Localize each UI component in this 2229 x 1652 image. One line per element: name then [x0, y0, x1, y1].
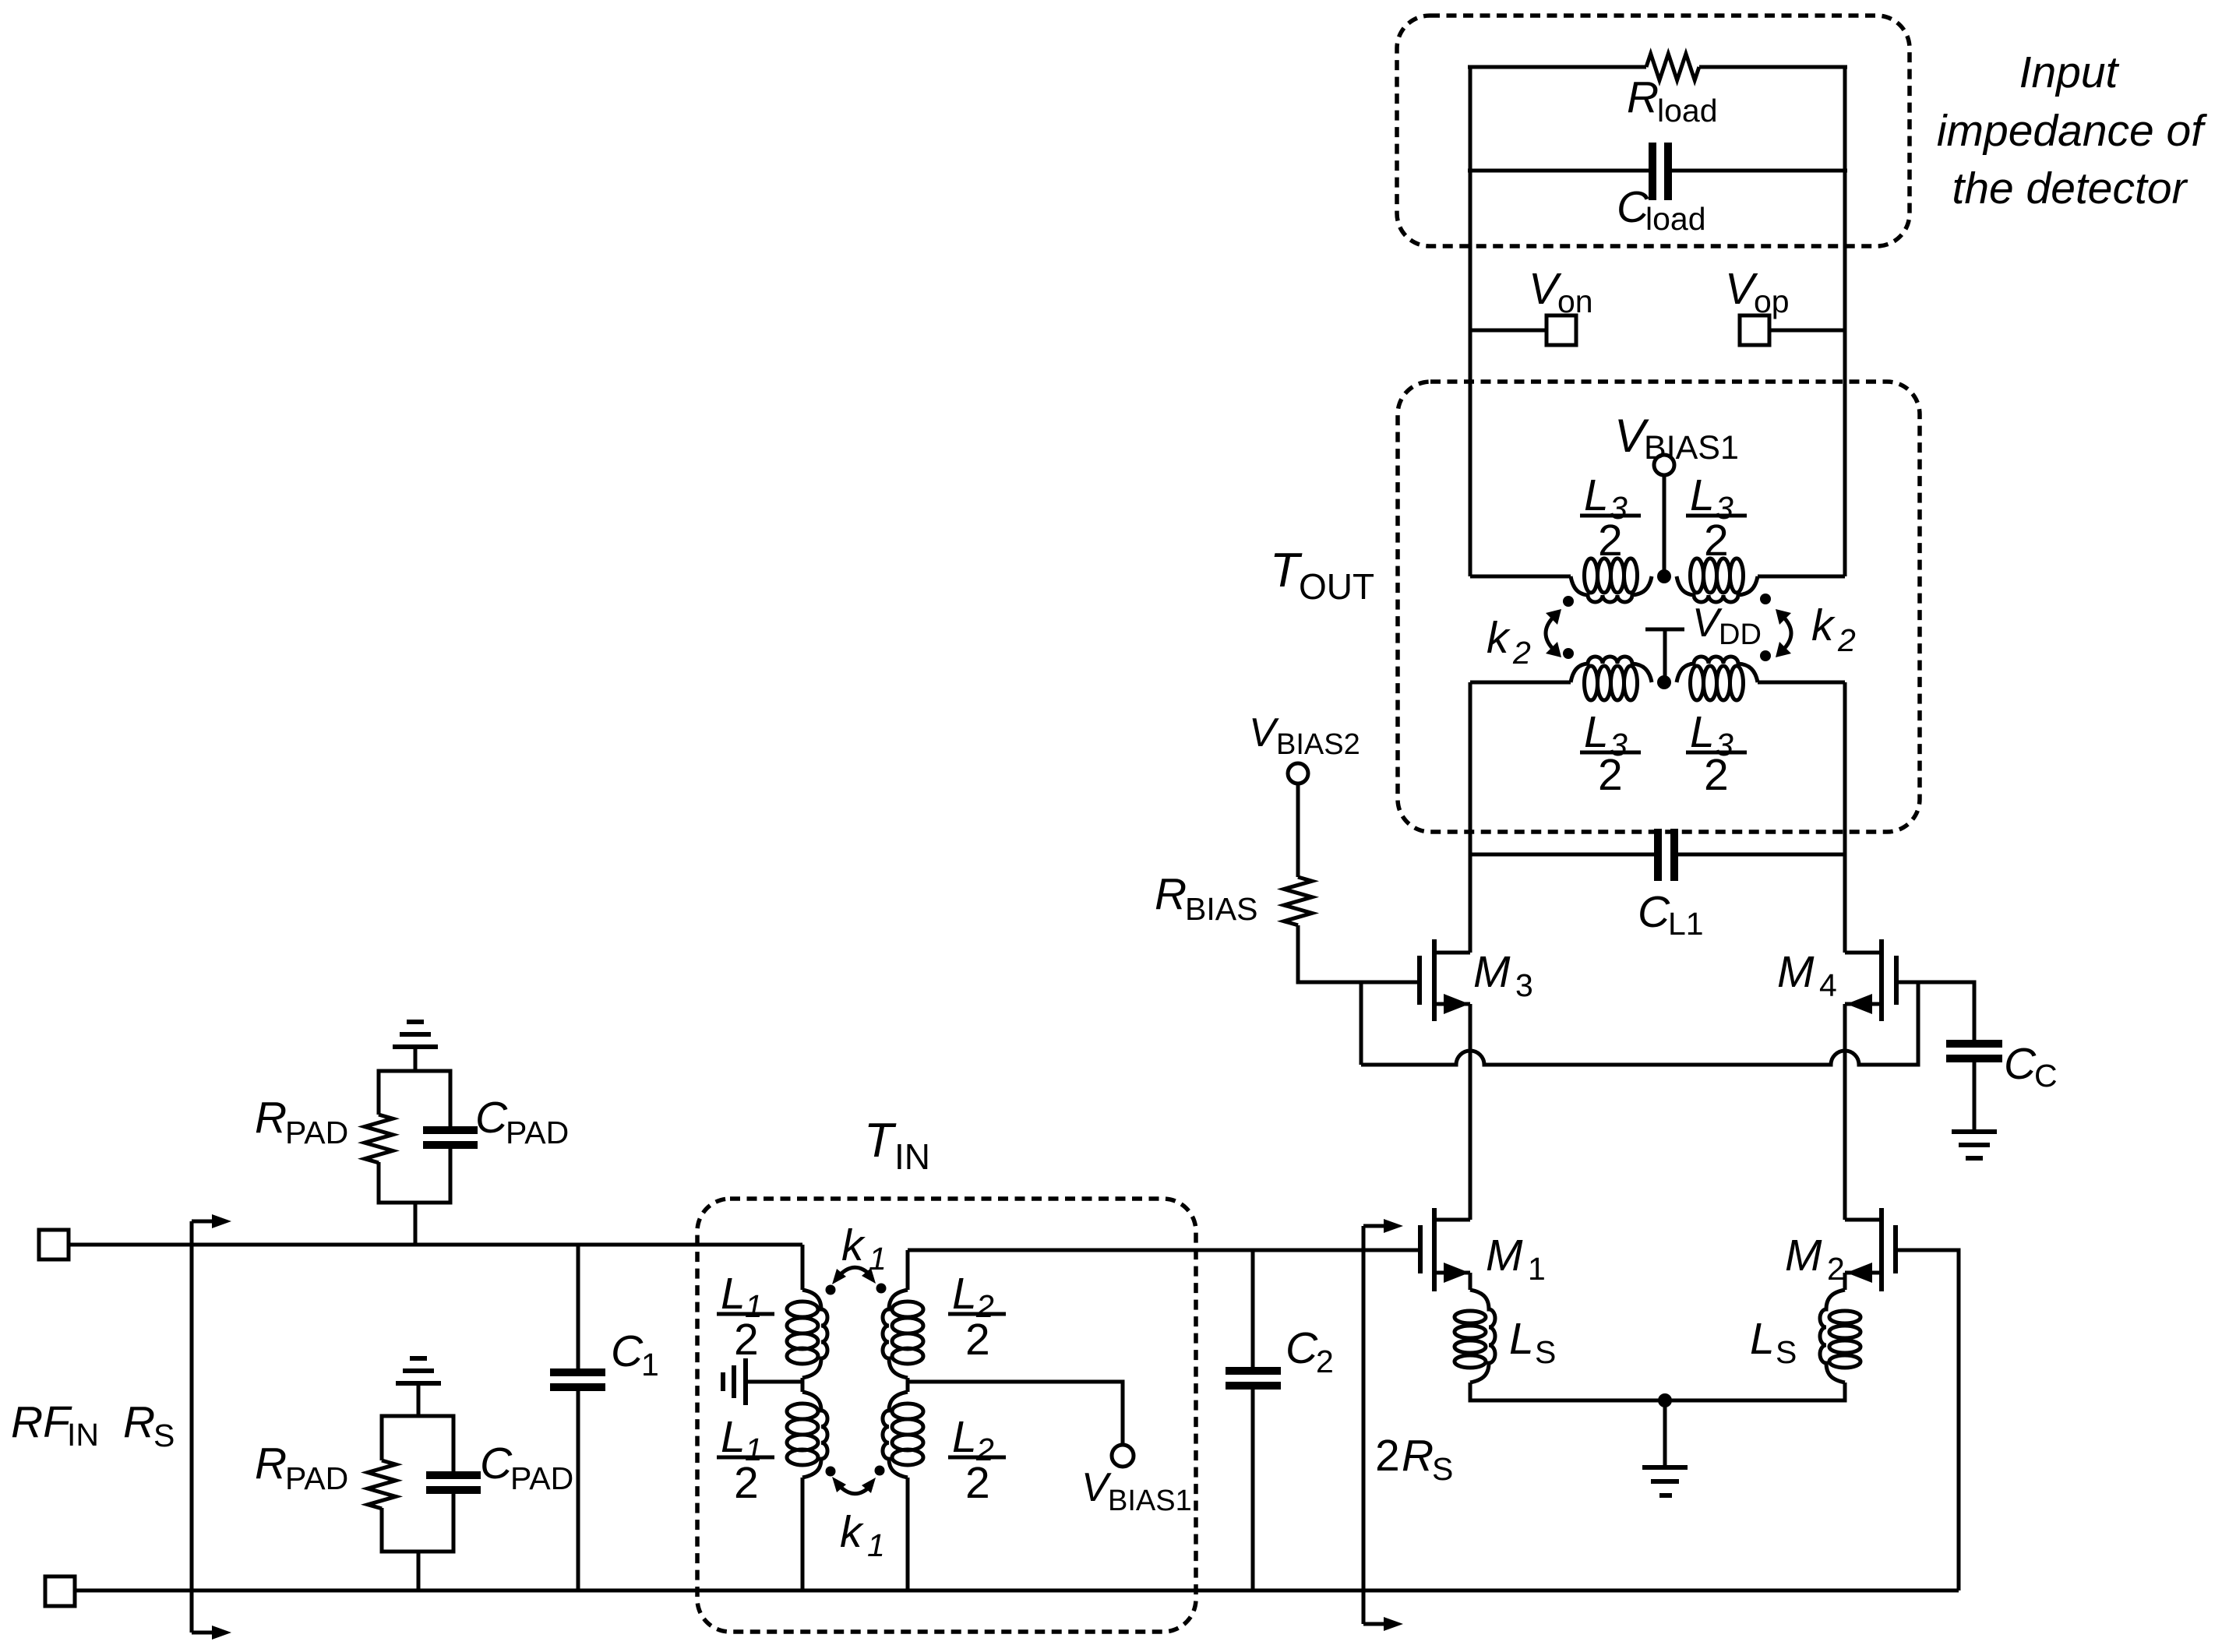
label k2 right	[1811, 601, 1856, 658]
wire: T_OUT primary right lead	[1758, 681, 1845, 685]
label L2/2 lower fraction	[948, 1412, 1006, 1508]
phase dot bottom-right	[1760, 650, 1771, 661]
svg-text:C: C	[2004, 1039, 2037, 1089]
svg-text:2: 2	[1375, 1431, 1400, 1481]
label V_BIAS2	[1249, 710, 1360, 761]
wire: M4 source rail down to M2 drain	[1843, 1004, 1847, 1220]
wire: primary bottom vertical	[801, 1478, 805, 1590]
label M3	[1473, 947, 1533, 1003]
transistor M3	[1420, 939, 1470, 1021]
wire: secondary bottom vertical	[906, 1478, 910, 1590]
svg-text:S: S	[1535, 1334, 1556, 1370]
capacitor C_C	[1946, 1044, 2002, 1058]
phase dot T_IN bottom-right	[875, 1466, 885, 1476]
inductor L3/2 secondary right coil	[1677, 558, 1758, 602]
label M4	[1777, 947, 1837, 1003]
wire: M4 gate lead to C_C	[1896, 982, 1974, 1041]
transformer T_IN dashed box	[697, 1199, 1196, 1632]
phase dot T_IN bottom-left	[826, 1467, 836, 1477]
k2 coupling arrow left	[1546, 609, 1561, 657]
svg-text:DD: DD	[1719, 618, 1762, 651]
svg-text:2: 2	[965, 1315, 990, 1365]
svg-text:2: 2	[1704, 516, 1729, 565]
pad RF_IN bottom	[45, 1576, 75, 1606]
svg-text:T: T	[864, 1114, 897, 1168]
svg-text:k: k	[1811, 601, 1836, 650]
wire: C_L1 wire left	[1470, 853, 1654, 857]
wire: cross-couple line with hops	[1361, 982, 1918, 1065]
svg-text:4: 4	[1819, 967, 1837, 1003]
svg-text:load: load	[1657, 93, 1718, 129]
wire: upper combo to top wire	[414, 1203, 418, 1245]
resistor R_BIAS	[1284, 877, 1312, 925]
svg-text:the detector: the detector	[1952, 164, 2188, 213]
svg-text:IN: IN	[894, 1136, 930, 1177]
label k1 top	[841, 1221, 887, 1277]
svg-text:L: L	[1750, 1314, 1775, 1364]
wire: input top wire	[69, 1243, 802, 1247]
label V_on	[1529, 264, 1593, 319]
svg-text:2: 2	[965, 1458, 990, 1508]
wire: cross-couple left vertical	[1360, 982, 1363, 1065]
svg-text:PAD: PAD	[285, 1460, 348, 1496]
label C2	[1286, 1323, 1334, 1379]
capacitor C2	[1226, 1250, 1281, 1590]
label C_C	[2004, 1039, 2058, 1094]
inductor L_S right	[1820, 1290, 1860, 1383]
svg-text:L: L	[1584, 470, 1609, 520]
inductor L3/2 primary left coil	[1571, 657, 1652, 700]
label V_BIAS1 (T_IN)	[1081, 1465, 1192, 1517]
svg-text:L: L	[952, 1412, 977, 1462]
inductor L2/2 upper coil	[883, 1290, 923, 1378]
label C1	[611, 1326, 659, 1383]
power V_DD symbol	[1645, 629, 1684, 682]
phase dot top-left	[1563, 596, 1574, 607]
svg-text:load: load	[1645, 201, 1706, 237]
svg-text:C: C	[1638, 887, 1670, 937]
svg-text:BIAS1: BIAS1	[1108, 1485, 1192, 1517]
ground (L1 center tap, sideways)	[723, 1358, 746, 1405]
wire: secondary top vertical	[906, 1250, 910, 1290]
svg-text:M: M	[1486, 1231, 1523, 1280]
phase dot T_IN top-left	[826, 1285, 836, 1295]
wire: L_S right to common node	[1665, 1383, 1845, 1400]
wire: bottom wire	[75, 1589, 1959, 1593]
svg-text:S: S	[1432, 1451, 1453, 1487]
wire: C_load wire right	[1672, 169, 1847, 173]
wire: V_BIAS2 to R_BIAS	[1296, 784, 1300, 877]
ground (C_C)	[1952, 1132, 1997, 1158]
svg-text:S: S	[153, 1418, 175, 1453]
label V_BIAS1 (top)	[1614, 410, 1739, 467]
svg-text:k: k	[1487, 613, 1511, 663]
label V_DD	[1692, 601, 1762, 651]
k1 coupling arrow top	[832, 1267, 876, 1284]
label RF_IN	[11, 1397, 99, 1453]
pad V_on	[1547, 315, 1576, 345]
ground (lower pad, inverted)	[396, 1358, 441, 1383]
svg-text:C: C	[1286, 1323, 1318, 1373]
svg-text:2: 2	[1598, 516, 1623, 565]
svg-text:S: S	[1776, 1334, 1797, 1370]
label C_load	[1617, 182, 1706, 237]
svg-text:PAD: PAD	[285, 1115, 348, 1150]
svg-text:L: L	[1509, 1314, 1534, 1364]
svg-text:OUT: OUT	[1299, 566, 1374, 607]
inductor L1/2 upper coil	[787, 1290, 827, 1378]
R_PAD C_PAD lower parallel combo	[368, 1416, 481, 1552]
svg-text:1: 1	[1528, 1251, 1546, 1287]
svg-text:PAD: PAD	[506, 1115, 569, 1150]
svg-text:L: L	[721, 1412, 746, 1462]
label k2 left	[1487, 613, 1531, 671]
label C_PAD upper	[475, 1093, 569, 1150]
svg-text:V: V	[1249, 710, 1279, 756]
wire: right rail T_OUT to M4 drain	[1843, 682, 1847, 953]
svg-text:T: T	[1270, 544, 1303, 597]
label C_PAD lower	[480, 1439, 573, 1496]
wire: M2 source to L_S	[1843, 1273, 1847, 1290]
svg-text:1: 1	[867, 1527, 885, 1563]
svg-text:C: C	[2034, 1058, 2058, 1094]
terminal V_BIAS1 (T_IN)	[1112, 1445, 1134, 1467]
wire: primary top vertical	[801, 1245, 805, 1290]
label R_load	[1627, 72, 1718, 129]
wire: T_OUT secondary left lead	[1470, 575, 1571, 579]
label M1	[1486, 1231, 1546, 1287]
wire: R_BIAS to M3 gate	[1298, 925, 1420, 982]
svg-text:2: 2	[1316, 1344, 1334, 1379]
svg-text:2: 2	[1704, 750, 1729, 800]
label L1/2 upper fraction	[717, 1269, 774, 1365]
inductor L_S left	[1455, 1290, 1495, 1383]
svg-text:RF: RF	[11, 1397, 72, 1447]
svg-text:BIAS2: BIAS2	[1276, 728, 1360, 761]
ground (upper pad, inverted)	[393, 1022, 438, 1047]
capacitor C_L1	[1658, 829, 1674, 881]
wire: C_load wire left	[1468, 169, 1649, 173]
terminal V_BIAS1 (top)	[1654, 455, 1674, 475]
port line 2R_S with arrows	[1363, 1219, 1403, 1631]
wire: between L1 coils	[801, 1378, 805, 1392]
svg-text:L: L	[721, 1269, 746, 1319]
wire: V_BIAS1 stem	[1663, 475, 1666, 576]
label M2	[1785, 1231, 1845, 1287]
wire: R_load top wire left	[1468, 65, 1646, 69]
svg-text:BIAS: BIAS	[1185, 891, 1257, 927]
label L2/2 upper fraction	[948, 1269, 1006, 1365]
wire: detector left rail	[1469, 67, 1472, 576]
svg-text:2: 2	[1827, 1251, 1845, 1287]
resistor R_load	[1646, 54, 1699, 80]
phase dot bottom-left	[1563, 648, 1574, 659]
wire: R_load top wire right	[1699, 65, 1847, 69]
svg-text:L1: L1	[1668, 906, 1704, 942]
label R_S	[123, 1397, 175, 1453]
label L3/2 top left fraction	[1580, 470, 1641, 565]
wire: V_op lead	[1769, 329, 1845, 333]
label R_BIAS	[1155, 869, 1257, 927]
svg-text:1: 1	[641, 1347, 659, 1383]
wire: left rail T_OUT to M3 drain	[1469, 682, 1472, 953]
wire: C_L1 wire right	[1678, 853, 1845, 857]
transistor M1	[1420, 1208, 1470, 1291]
wire: L_S left to common node	[1470, 1383, 1665, 1400]
wire: L1 center tap stem	[746, 1380, 802, 1384]
detector dashed box	[1397, 16, 1910, 246]
wire: M2 gate lead	[1896, 1250, 1959, 1590]
label R_PAD lower	[255, 1439, 348, 1496]
inductor L1/2 lower coil	[787, 1392, 827, 1478]
svg-text:R: R	[255, 1439, 287, 1488]
label C_L1	[1638, 887, 1704, 942]
svg-text:2: 2	[1837, 622, 1856, 658]
wire: T_OUT secondary right lead	[1758, 575, 1845, 579]
svg-text:impedance of: impedance of	[1937, 106, 2207, 156]
phase dot T_IN top-right	[876, 1284, 887, 1294]
svg-text:BIAS1: BIAS1	[1644, 429, 1739, 467]
svg-text:L: L	[952, 1269, 977, 1319]
svg-text:2: 2	[734, 1315, 759, 1365]
node: primary center tap	[1657, 675, 1671, 689]
inductor L3/2 primary right coil	[1677, 657, 1758, 700]
label T_IN	[864, 1114, 930, 1177]
svg-text:op: op	[1754, 284, 1790, 319]
svg-text:2: 2	[1512, 635, 1531, 671]
label L3/2 top right fraction	[1686, 470, 1747, 565]
svg-text:R: R	[1402, 1431, 1434, 1481]
transistor M4	[1845, 939, 1896, 1021]
wire: lower pad ground stem	[417, 1383, 421, 1416]
svg-text:1: 1	[869, 1241, 887, 1277]
svg-text:R: R	[1627, 72, 1659, 122]
label 2R_S	[1375, 1431, 1453, 1487]
svg-text:k: k	[841, 1221, 866, 1270]
port line R_S with arrows	[192, 1214, 231, 1640]
inductor L2/2 lower coil	[883, 1392, 923, 1478]
svg-text:on: on	[1557, 284, 1593, 319]
svg-text:M: M	[1777, 947, 1815, 997]
wire: C_C to ground	[1973, 1058, 1977, 1132]
svg-text:C: C	[475, 1093, 508, 1143]
node: source common	[1658, 1393, 1672, 1407]
svg-text:R: R	[1155, 869, 1187, 919]
pad V_op	[1740, 315, 1769, 345]
label L3/2 bottom right fraction	[1686, 707, 1747, 800]
wire: M3 source rail down to M1 drain	[1469, 1004, 1472, 1220]
wire: M1 source to L_S	[1469, 1273, 1472, 1290]
transistor M2	[1845, 1208, 1896, 1291]
terminal V_BIAS2	[1288, 763, 1308, 784]
label k1 bottom	[840, 1507, 885, 1563]
label V_op	[1725, 264, 1790, 319]
wire: between L2 coils	[906, 1378, 910, 1392]
phase dot top-right	[1760, 594, 1771, 604]
wire: common node to ground	[1663, 1400, 1667, 1467]
wire: upper pad ground stem	[414, 1047, 418, 1071]
svg-text:C: C	[611, 1326, 644, 1376]
pad RF_IN top	[39, 1230, 69, 1259]
wire: T_OUT primary left lead	[1470, 681, 1571, 685]
ground (sources)	[1642, 1467, 1688, 1495]
svg-text:IN: IN	[67, 1417, 99, 1453]
svg-text:M: M	[1473, 947, 1511, 997]
svg-text:R: R	[255, 1093, 287, 1143]
wire: lower combo to bottom wire	[417, 1552, 421, 1590]
svg-text:3: 3	[1515, 967, 1533, 1003]
wire: secondary top wire to M1 gate	[908, 1249, 1419, 1252]
inductor L3/2 secondary left coil	[1571, 558, 1652, 602]
label T_OUT	[1270, 544, 1374, 607]
label L_S left	[1509, 1314, 1556, 1370]
label L1/2 lower fraction	[717, 1412, 774, 1508]
svg-text:2: 2	[1598, 750, 1623, 800]
k2 coupling arrow right	[1776, 609, 1791, 657]
wire: V_on lead	[1470, 329, 1547, 333]
label L3/2 bottom left fraction	[1580, 707, 1641, 800]
k1 coupling arrow bottom	[832, 1477, 876, 1494]
svg-text:C: C	[1617, 182, 1649, 232]
wire: detector right rail	[1843, 67, 1847, 576]
svg-text:M: M	[1785, 1231, 1822, 1280]
wire: L2 center tap to V_BIAS1	[908, 1382, 1123, 1445]
label R_PAD upper	[255, 1093, 348, 1150]
svg-text:PAD: PAD	[510, 1460, 573, 1496]
transformer T_OUT dashed box	[1398, 382, 1920, 832]
svg-text:C: C	[480, 1439, 513, 1488]
capacitor C_load	[1652, 143, 1668, 200]
capacitor C1	[550, 1245, 605, 1590]
label L_S right	[1750, 1314, 1797, 1370]
svg-text:L: L	[1690, 470, 1715, 520]
R_PAD C_PAD upper parallel combo	[365, 1071, 478, 1203]
svg-text:2: 2	[734, 1458, 759, 1508]
svg-text:R: R	[123, 1397, 155, 1447]
label Input impedance of the detector	[1937, 48, 2207, 213]
svg-text:Input: Input	[2019, 48, 2120, 97]
svg-text:k: k	[840, 1507, 864, 1557]
node: secondary center tap	[1657, 569, 1671, 583]
